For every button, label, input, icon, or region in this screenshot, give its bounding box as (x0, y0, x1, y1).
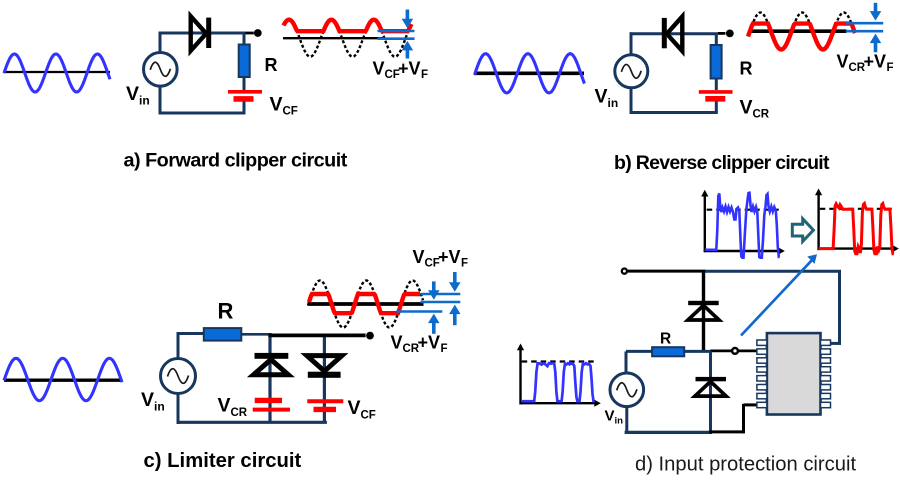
svg-text:CF: CF (283, 106, 298, 118)
svg-text:R: R (265, 55, 278, 75)
svg-text:F: F (887, 62, 894, 74)
svg-text:CR: CR (231, 407, 248, 419)
svg-text:in: in (139, 94, 150, 108)
svg-text:in: in (615, 416, 624, 427)
svg-text:R: R (218, 299, 234, 324)
svg-text:c) Limiter circuit: c) Limiter circuit (144, 450, 302, 472)
svg-text:R: R (740, 59, 753, 79)
svg-text:V: V (348, 397, 361, 419)
svg-text:V: V (413, 247, 425, 267)
svg-text:R: R (660, 331, 671, 348)
svg-text:a) Forward clipper circuit: a) Forward clipper circuit (124, 150, 348, 172)
svg-text:+V: +V (398, 59, 421, 79)
svg-text:+V: +V (438, 247, 461, 267)
svg-text:V: V (595, 86, 608, 108)
svg-text:V: V (218, 395, 231, 417)
svg-text:F: F (421, 69, 428, 81)
svg-text:F: F (441, 343, 448, 355)
svg-text:V: V (373, 59, 385, 79)
svg-text:b) Reverse clipper circuit: b) Reverse clipper circuit (614, 152, 830, 174)
svg-text:V: V (837, 52, 849, 72)
svg-text:in: in (154, 400, 165, 414)
svg-text:V: V (740, 97, 753, 119)
svg-text:V: V (126, 83, 139, 105)
svg-text:F: F (461, 258, 468, 270)
svg-text:in: in (608, 96, 619, 110)
svg-text:CF: CF (361, 410, 376, 422)
svg-text:V: V (605, 408, 615, 425)
svg-text:V: V (391, 333, 403, 353)
svg-text:CR: CR (753, 109, 770, 121)
svg-text:+V: +V (864, 52, 887, 72)
svg-text:V: V (141, 389, 154, 411)
svg-text:V: V (270, 94, 283, 116)
svg-text:d) Input protection circuit: d) Input protection circuit (635, 454, 856, 476)
svg-text:+V: +V (418, 333, 441, 353)
